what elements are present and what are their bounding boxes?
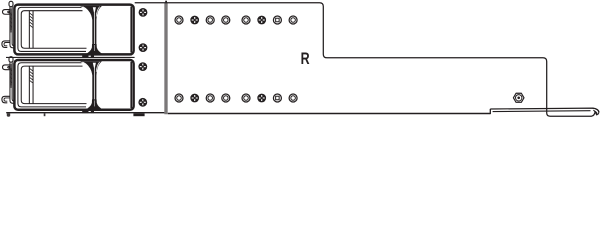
fold tick above top xyxy=(165,1,167,3)
rivet row top xyxy=(175,16,183,24)
panel outline: top edge, step, right edge, tray bottom xyxy=(135,3,595,117)
rail inner line xyxy=(493,110,591,113)
panel fold double line xyxy=(165,3,167,114)
strip screw B xyxy=(139,43,148,52)
strip screw A xyxy=(139,8,148,17)
chassis foot mid xyxy=(44,113,46,116)
bay divider line xyxy=(6,56,135,58)
tab under screw strip xyxy=(133,113,144,116)
chassis bottom line left xyxy=(6,112,164,114)
rail step up xyxy=(489,109,491,114)
rivet row bottom xyxy=(175,94,183,102)
panel bottom line right xyxy=(168,113,491,115)
svg-text:R: R xyxy=(301,50,310,68)
rail end hook xyxy=(593,108,599,115)
strip screw C xyxy=(138,62,147,71)
strip screw D xyxy=(138,98,147,107)
PSU module 1 (top) xyxy=(2,1,134,57)
rail top line xyxy=(490,108,599,112)
PSU module 2 (bottom) xyxy=(2,57,134,113)
chassis foot left xyxy=(7,113,10,116)
hex thumbscrew xyxy=(513,93,524,102)
